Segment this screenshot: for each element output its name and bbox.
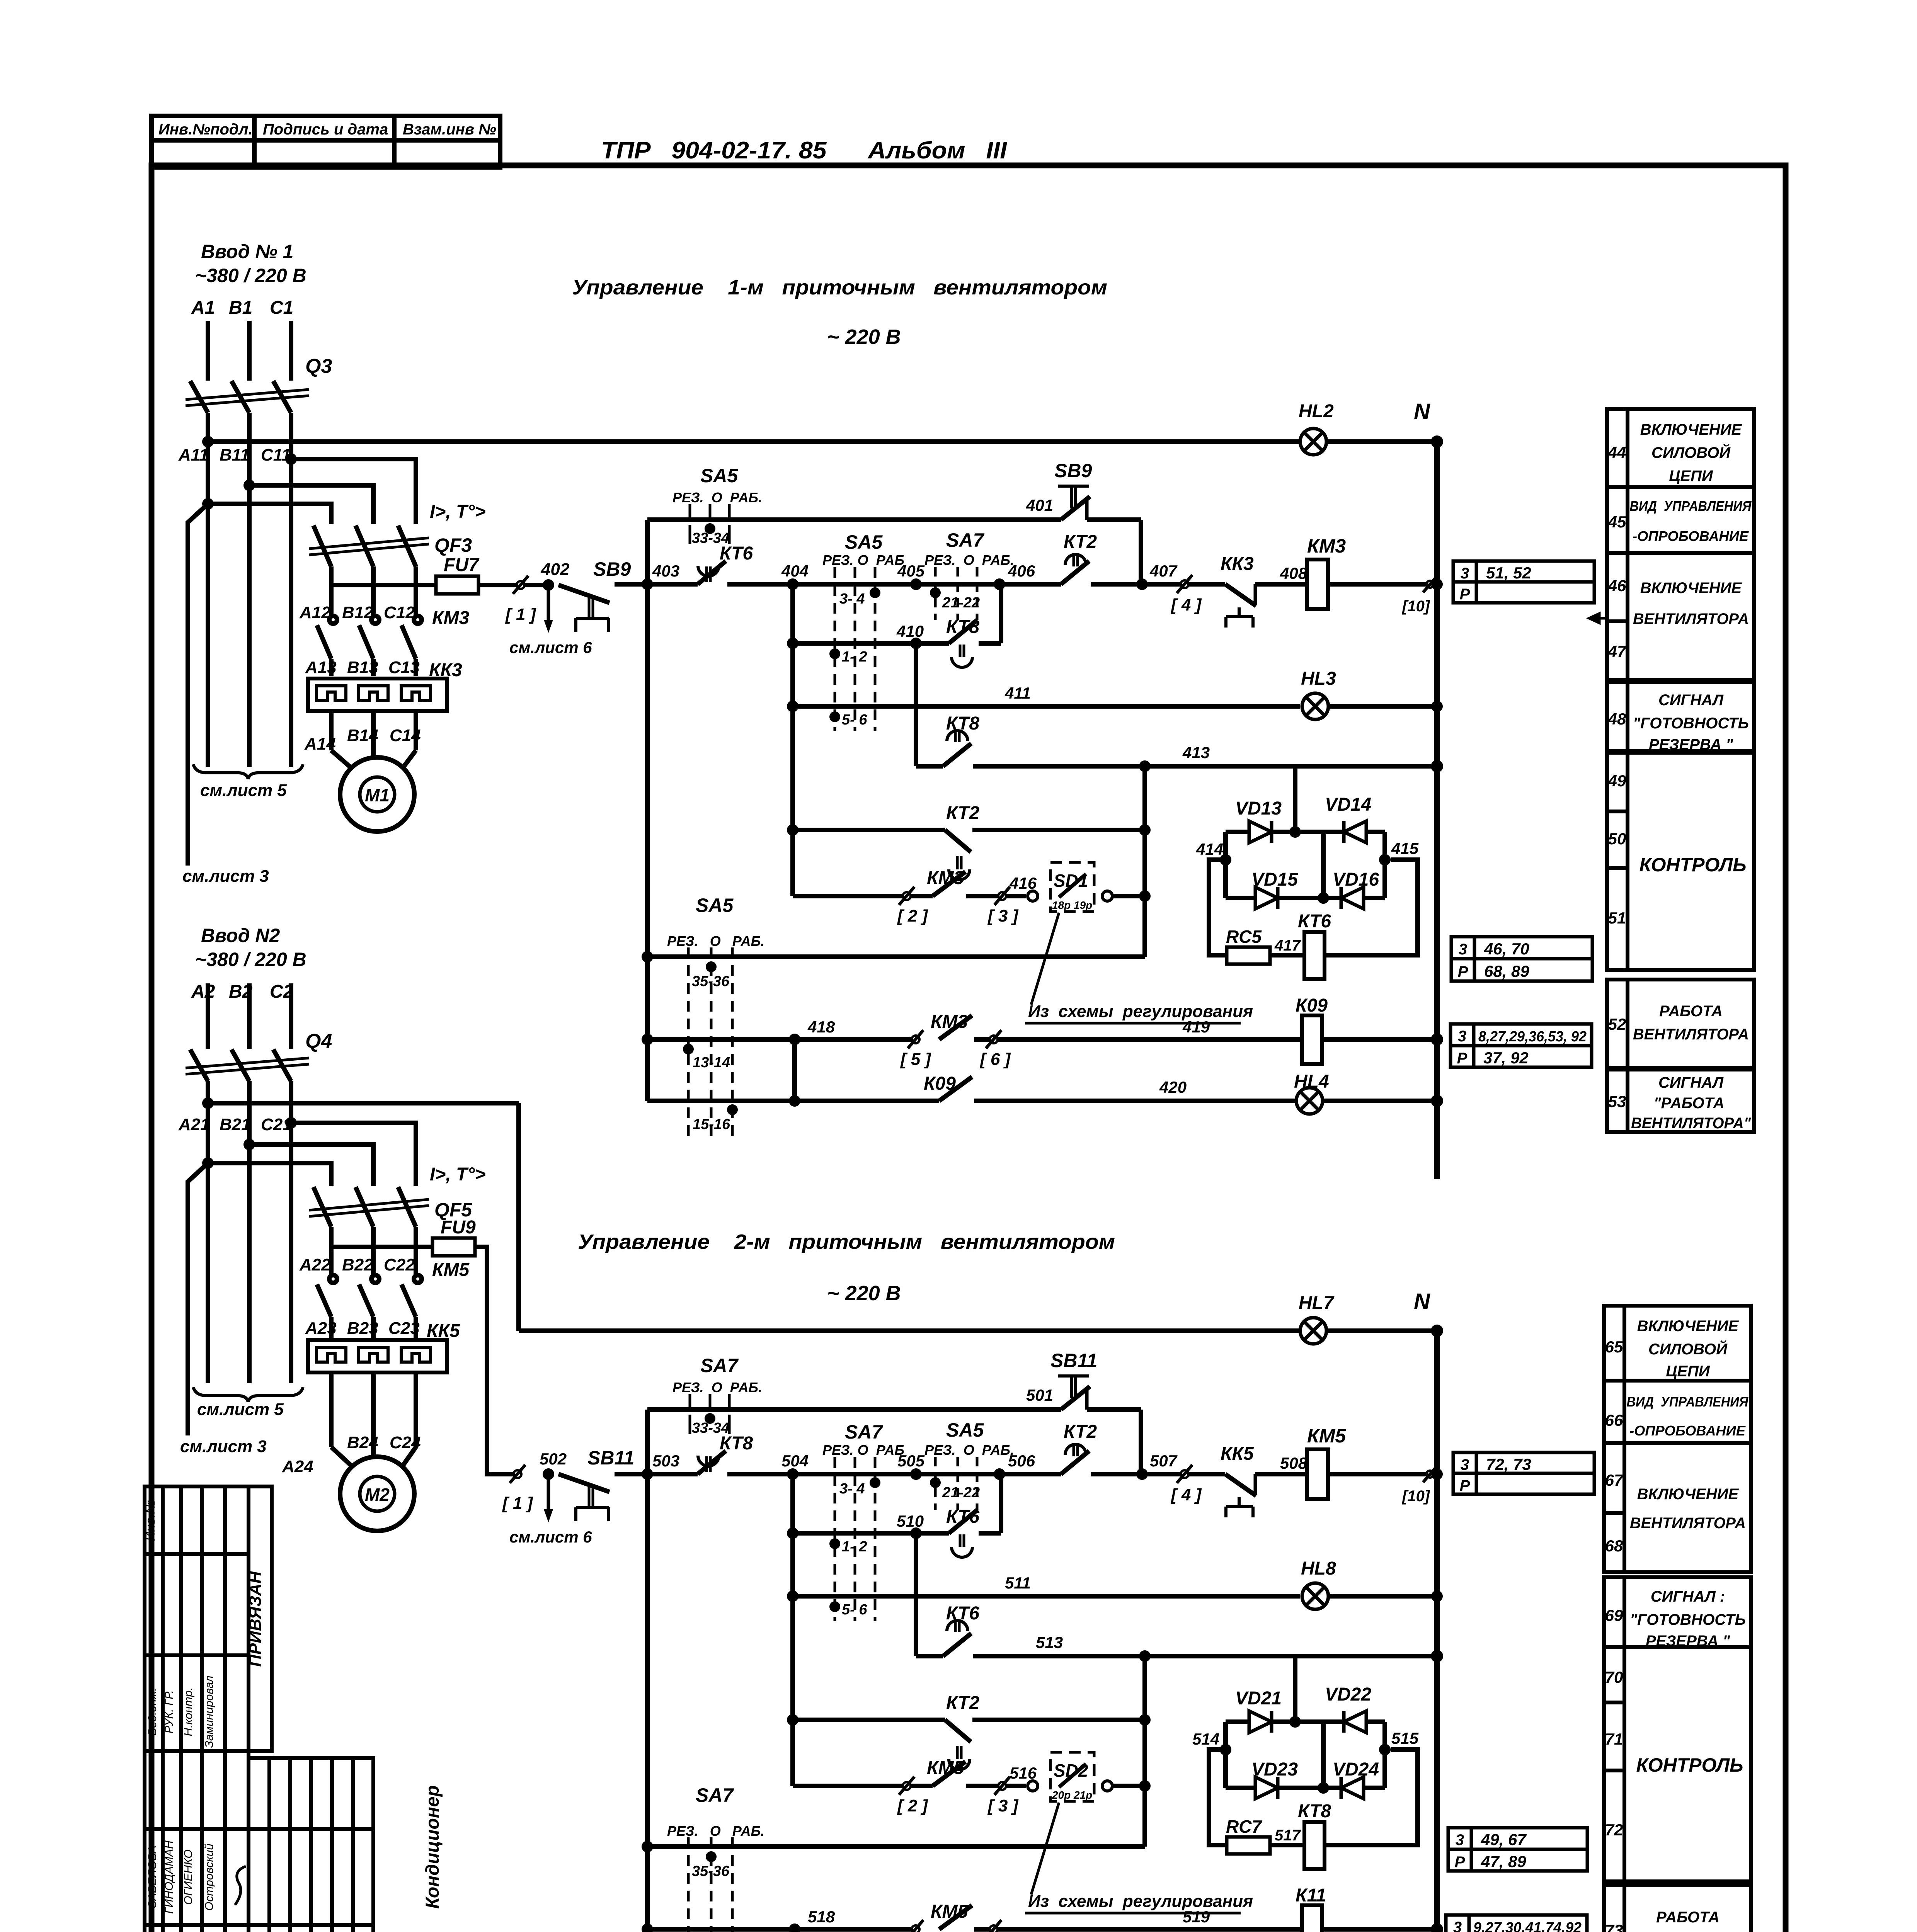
node 405: [910, 578, 922, 590]
svg-text:72, 73: 72, 73: [1486, 1455, 1531, 1473]
svg-text:Q4: Q4: [305, 1030, 332, 1053]
node 410: [910, 638, 922, 649]
svg-text:В12: В12: [342, 603, 373, 622]
svg-text:35-36: 35-36: [692, 973, 730, 990]
svg-text:37, 92: 37, 92: [1483, 1049, 1529, 1067]
svg-text:21-22: 21-22: [942, 595, 980, 611]
svg-text:Из схемы регулирования: Из схемы регулирования: [1028, 1892, 1253, 1911]
wire FU9 corner down: [475, 1247, 518, 1474]
mini ref table 3/72,73: [1453, 1452, 1594, 1494]
terminal circle left: [1028, 891, 1038, 901]
svg-text:502: 502: [540, 1450, 567, 1468]
svg-text:см.лист 5: см.лист 5: [200, 781, 287, 800]
svg-text:3: 3: [1461, 565, 1469, 582]
right sub vertical 2: [1142, 1656, 1147, 1847]
svg-text:Р: Р: [1457, 1050, 1468, 1067]
svg-text:КОНТРОЛЬ: КОНТРОЛЬ: [1639, 854, 1747, 876]
svg-text:51: 51: [1608, 909, 1626, 927]
svg-text:Заминировал: Заминировал: [203, 1675, 216, 1748]
breaker QF3 blades: [313, 526, 331, 566]
svg-text:45: 45: [1608, 513, 1626, 531]
node 506: [994, 1468, 1005, 1480]
svg-text:HL8: HL8: [1301, 1558, 1336, 1579]
svg-text:418: 418: [807, 1018, 835, 1036]
svg-text:21-22: 21-22: [942, 1485, 980, 1501]
svg-text:В11: В11: [220, 446, 249, 464]
svg-text:РАБОТА: РАБОТА: [1659, 1003, 1723, 1020]
svg-text:СИЛОВОЙ: СИЛОВОЙ: [1648, 1340, 1728, 1358]
node 503: [642, 1468, 653, 1480]
svg-text:[ 3 ]: [ 3 ]: [987, 906, 1019, 925]
wire 420: [647, 1099, 939, 1103]
switch Q3 tie bar: [186, 389, 309, 400]
svg-text:HL3: HL3: [1301, 668, 1336, 689]
svg-text:К11: К11: [1296, 1885, 1326, 1906]
wire 414 down to RC5: [1209, 860, 1227, 955]
svg-text:СИГНАЛ: СИГНАЛ: [1658, 1074, 1724, 1091]
wire to sheet 3 lower: [188, 1163, 208, 1435]
remote switch SD1 dashed box: [1050, 862, 1094, 912]
svg-text:КТ2: КТ2: [1064, 1422, 1097, 1442]
bridge 2 side rails: [1223, 1722, 1228, 1788]
node 502: [543, 1468, 554, 1480]
svg-text:Р: Р: [1460, 586, 1470, 603]
svg-text:518: 518: [808, 1908, 835, 1926]
svg-text:SA5: SA5: [696, 895, 734, 916]
diode bridge wires top row: [1226, 830, 1385, 834]
motor M1: [340, 757, 414, 832]
svg-text:8,27,29,36,53, 92: 8,27,29,36,53, 92: [1478, 1029, 1587, 1045]
right function table section 2: [1604, 1306, 1751, 1932]
mini ref table 3/8,27,...: [1451, 1024, 1592, 1067]
svg-text:РЕЗ. О РАБ.: РЕЗ. О РАБ.: [667, 933, 764, 949]
svg-text:18р 19р: 18р 19р: [1052, 899, 1092, 911]
svg-text:406: 406: [1008, 562, 1035, 580]
wire SB9 to node 403: [615, 582, 698, 587]
svg-text:А21: А21: [178, 1115, 210, 1134]
wire 518: [642, 1923, 653, 1932]
svg-text:КМ3: КМ3: [432, 608, 469, 628]
node 414: [1220, 854, 1231, 866]
svg-text:414: 414: [1196, 840, 1223, 858]
svg-text:52: 52: [1608, 1015, 1626, 1033]
svg-text:А11: А11: [178, 446, 208, 464]
left bus vertical section1: [645, 584, 650, 1101]
svg-text:К09: К09: [1296, 995, 1328, 1016]
svg-text:44: 44: [1608, 443, 1626, 461]
svg-text:[ 2 ]: [ 2 ]: [897, 1796, 928, 1815]
svg-text:415: 415: [1391, 839, 1419, 857]
svg-text:9,27,30,41,74,92: 9,27,30,41,74,92: [1473, 1920, 1582, 1932]
svg-text:А23: А23: [305, 1319, 337, 1338]
breaker QF5 pole bottoms: [329, 1227, 334, 1247]
svg-text:С12: С12: [384, 603, 415, 622]
svg-text:71: 71: [1605, 1730, 1623, 1748]
svg-text:VD24: VD24: [1333, 1759, 1379, 1780]
svg-text:49, 67: 49, 67: [1481, 1830, 1527, 1849]
svg-text:А24: А24: [282, 1457, 313, 1476]
wire 401 corner down to node 407: [1139, 520, 1143, 584]
svg-text:Подпись и дата: Подпись и дата: [263, 121, 388, 138]
svg-text:VD22: VD22: [1325, 1684, 1371, 1705]
mini ref table 3/9,27,...: [1446, 1915, 1587, 1932]
tap wire A21 to QF5: [208, 1163, 331, 1186]
cable marker [1] lower: [514, 1470, 521, 1478]
leader line from SD2: [1031, 1803, 1059, 1895]
svg-text:SA7: SA7: [845, 1421, 883, 1443]
svg-text:N: N: [1414, 399, 1430, 424]
svg-text:РЕЗЕРВА ": РЕЗЕРВА ": [1646, 1633, 1730, 1650]
svg-text:46: 46: [1608, 577, 1626, 595]
svg-text:КОНТРОЛЬ: КОНТРОЛЬ: [1636, 1754, 1743, 1776]
wire up to node 506: [999, 1474, 1003, 1533]
svg-text:RC5: RC5: [1226, 927, 1262, 947]
svg-text:1- 2: 1- 2: [842, 649, 867, 665]
svg-text:3: 3: [1453, 1919, 1462, 1932]
wire 401: [647, 517, 1061, 522]
wire SD1 to vertical: [1112, 894, 1145, 898]
svg-text:511: 511: [1005, 1574, 1031, 1592]
svg-text:С24: С24: [390, 1433, 421, 1452]
svg-text:67: 67: [1605, 1471, 1624, 1489]
cable marker [4] lower: [1181, 1470, 1188, 1478]
svg-text:СИЛОВОЙ: СИЛОВОЙ: [1651, 443, 1731, 461]
drop from 513 into diode bridge 2: [1293, 1656, 1297, 1722]
breaker QF5 tie bar: [309, 1199, 429, 1210]
svg-text:~ 220 В: ~ 220 В: [827, 1282, 901, 1305]
diode bridge 2 top row: [1226, 1719, 1385, 1724]
svg-text:КМ5: КМ5: [432, 1260, 470, 1280]
svg-text:РЕЗ. О РАБ.: РЕЗ. О РАБ.: [672, 490, 762, 505]
svg-text:см.лист 6: см.лист 6: [509, 1528, 592, 1546]
svg-text:[10]: [10]: [1401, 598, 1430, 615]
svg-text:КТ6: КТ6: [1298, 911, 1331, 932]
svg-text:СИГНАЛ :: СИГНАЛ :: [1651, 1588, 1725, 1605]
svg-text:73: 73: [1605, 1921, 1623, 1932]
svg-text:КТ8: КТ8: [1298, 1801, 1331, 1821]
svg-text:68: 68: [1605, 1537, 1623, 1555]
svg-text:"ГОТОВНОСТЬ: "ГОТОВНОСТЬ: [1630, 1611, 1746, 1628]
node 415: [1379, 854, 1391, 866]
svg-text:402: 402: [541, 560, 570, 579]
wire phase A2 down: [206, 1081, 210, 1383]
svg-text:SB9: SB9: [1054, 460, 1092, 481]
svg-text:47: 47: [1608, 642, 1627, 660]
svg-text:-ОПРОБОВАНИЕ: -ОПРОБОВАНИЕ: [1633, 528, 1749, 544]
svg-text:В23: В23: [347, 1319, 378, 1338]
N bus section1: [1434, 442, 1440, 1179]
cable marker [5] lower: [912, 1925, 919, 1932]
svg-text:КМ5: КМ5: [1307, 1425, 1346, 1447]
svg-text:SB11: SB11: [587, 1447, 634, 1469]
node 514: [1220, 1744, 1231, 1755]
svg-text:КК5: КК5: [1221, 1444, 1254, 1464]
svg-text:~380 / 220 В: ~380 / 220 В: [195, 949, 306, 970]
wire 506 to KT2: [999, 1472, 1061, 1476]
svg-text:Н.контр.: Н.контр.: [182, 1687, 195, 1736]
svg-text:VD21: VD21: [1235, 1688, 1282, 1709]
wire KT8 coil to 515: [1325, 1750, 1418, 1845]
svg-text:Из схемы регулирования: Из схемы регулирования: [1028, 1002, 1253, 1021]
svg-text:С1: С1: [270, 298, 293, 318]
svg-text:I>, T°>: I>, T°>: [430, 1164, 486, 1185]
node 504: [787, 1468, 798, 1480]
wire SB11 to node 503: [615, 1472, 698, 1476]
right sub vertical: [1142, 766, 1147, 957]
wire KT6 coil to 415: [1325, 860, 1418, 955]
svg-text:[ 4 ]: [ 4 ]: [1170, 1485, 1202, 1504]
svg-text:В21: В21: [220, 1115, 251, 1134]
svg-text:ВКЛЮЧЕНИЕ: ВКЛЮЧЕНИЕ: [1640, 421, 1742, 438]
control feed wire from QF3: [331, 583, 436, 587]
wire phase A1 down: [206, 413, 210, 767]
right function table section 1: [1607, 409, 1754, 1132]
svg-text:С22: С22: [384, 1255, 415, 1274]
svg-text:САВЕЛОВА: САВЕЛОВА: [146, 1845, 159, 1909]
svg-text:ПРИВЯЗАН: ПРИВЯЗАН: [246, 1571, 265, 1667]
svg-text:ВЕНТИЛЯТОРА: ВЕНТИЛЯТОРА: [1630, 1515, 1746, 1532]
wire phase B2 top: [247, 983, 252, 1049]
cable marker [2]: [903, 892, 911, 900]
svg-text:КК3: КК3: [1221, 554, 1254, 574]
svg-text:68, 89: 68, 89: [1484, 962, 1529, 980]
svg-text:70: 70: [1605, 1668, 1623, 1686]
svg-text:ТПР 904-02-17. 85 Альбо: ТПР 904-02-17. 85 Альбом III: [601, 137, 1008, 164]
svg-text:ВИД УПРАВЛЕНИЯ: ВИД УПРАВЛЕНИЯ: [1627, 1394, 1749, 1410]
svg-text:[ 1 ]: [ 1 ]: [505, 605, 536, 624]
svg-text:VD16: VD16: [1333, 869, 1379, 890]
cable marker [4]: [1181, 580, 1188, 588]
svg-text:405: 405: [897, 562, 925, 580]
table 1 left arrow: [1589, 614, 1607, 623]
svg-text:51, 52: 51, 52: [1486, 564, 1531, 582]
node 515: [1379, 1744, 1391, 1755]
table 1 row numbers: [1608, 443, 1627, 1111]
wire 514 down to RC7: [1209, 1750, 1227, 1845]
svg-text:HL2: HL2: [1299, 401, 1334, 422]
svg-text:3- 4: 3- 4: [839, 591, 865, 607]
vertical between 518 and 520: [792, 1929, 797, 1932]
tap wire C11 to QF3: [291, 459, 416, 524]
svg-text:Инв.№подл.: Инв.№подл.: [158, 121, 253, 138]
vertical 510 down to wire 513: [914, 1533, 918, 1656]
svg-text:50: 50: [1608, 830, 1626, 848]
svg-text:517: 517: [1275, 1827, 1301, 1844]
svg-text:411: 411: [1004, 684, 1031, 702]
diode bridge 2 bottom row: [1226, 1786, 1385, 1790]
wire 410 line: [787, 638, 798, 649]
wire phase A2 top: [206, 983, 210, 1049]
svg-text:Ввод N2: Ввод N2: [201, 925, 280, 946]
svg-text:РЕЗ. О РАБ: РЕЗ. О РАБ: [822, 1442, 904, 1458]
cable marker [6] lower: [990, 1925, 998, 1932]
svg-text:СИГНАЛ: СИГНАЛ: [1658, 692, 1724, 709]
wire 406 to KT2: [999, 582, 1061, 587]
node 510: [910, 1527, 922, 1539]
node 505: [910, 1468, 922, 1480]
wire SD2 to vertical: [1112, 1784, 1145, 1788]
brace see sheet 5 lower: [193, 1387, 303, 1402]
svg-text:410: 410: [896, 622, 924, 640]
svg-text:см.лист 3: см.лист 3: [180, 1437, 267, 1456]
wire 417: [1270, 953, 1304, 957]
cable marker [2] lower: [903, 1782, 911, 1790]
signature squiggles: [232, 1866, 246, 1932]
svg-text:417: 417: [1274, 937, 1301, 954]
svg-text:ВЕНТИЛЯТОРА: ВЕНТИЛЯТОРА: [1633, 611, 1749, 628]
mini ref table 3/49,67: [1448, 1828, 1587, 1871]
svg-text:508: 508: [1280, 1454, 1308, 1472]
svg-text:РАБОТА: РАБОТА: [1656, 1909, 1720, 1926]
svg-text:ЦЕПИ: ЦЕПИ: [1666, 1363, 1710, 1380]
svg-text:N: N: [1414, 1289, 1430, 1314]
svg-text:см.лист 3: см.лист 3: [182, 867, 269, 886]
svg-text:ВКЛЮЧЕНИЕ: ВКЛЮЧЕНИЕ: [1640, 580, 1742, 597]
svg-text:72: 72: [1605, 1821, 1623, 1839]
wire KM3-SD1 line: [793, 894, 933, 898]
svg-text:Островский: Островский: [203, 1844, 216, 1911]
svg-text:РЕЗЕРВА ": РЕЗЕРВА ": [1649, 736, 1733, 753]
svg-text:ВИД УПРАВЛЕНИЯ: ВИД УПРАВЛЕНИЯ: [1630, 498, 1752, 514]
bridge 2 mid tie: [1321, 1722, 1326, 1788]
svg-text:3: 3: [1456, 1832, 1464, 1849]
svg-text:5- 6: 5- 6: [842, 712, 867, 728]
breaker QF3 tie bar: [309, 538, 429, 549]
bridge mid tie: [1321, 832, 1326, 898]
svg-text:Q3: Q3: [305, 355, 332, 378]
svg-text:3- 4: 3- 4: [839, 1481, 865, 1497]
svg-text:48: 48: [1608, 710, 1626, 728]
svg-text:513: 513: [1036, 1633, 1063, 1651]
terminal circle right 2: [1102, 1781, 1112, 1791]
svg-text:см.лист 6: см.лист 6: [509, 638, 592, 656]
cable marker [3] lower: [998, 1782, 1006, 1790]
node 507: [1136, 1468, 1148, 1480]
svg-text:В24: В24: [347, 1433, 378, 1452]
svg-text:SA7: SA7: [946, 529, 984, 551]
svg-text:А1: А1: [191, 298, 215, 318]
svg-text:КТ2: КТ2: [1064, 532, 1097, 552]
wire coil KM3 to N: [1328, 582, 1437, 587]
svg-text:РЕЗ. О РАБ.: РЕЗ. О РАБ.: [672, 1379, 762, 1395]
svg-text:РУК. ГР.: РУК. ГР.: [163, 1690, 175, 1733]
wire KM5-SD2 line: [793, 1784, 933, 1788]
node 403: [642, 578, 653, 590]
motor M2: [340, 1457, 414, 1531]
svg-text:~380 / 220 В: ~380 / 220 В: [195, 265, 306, 286]
wire FU7 to 402: [478, 583, 548, 587]
diode bridge wires bottom row: [1226, 896, 1385, 900]
svg-text:510: 510: [897, 1512, 924, 1530]
vertical from node 404 down: [790, 584, 795, 896]
svg-text:Ввод № 1: Ввод № 1: [201, 241, 293, 262]
title block: part A grid (Привязан / Инв.№ columns): [145, 1486, 272, 1751]
remote switch SD2 dashed box: [1050, 1752, 1094, 1801]
svg-text:15-16: 15-16: [693, 1116, 730, 1133]
top rail section2: [519, 1328, 1300, 1333]
svg-text:Инв.№: Инв.№: [143, 1500, 158, 1541]
svg-text:[ 2 ]: [ 2 ]: [897, 906, 928, 925]
svg-text:FU7: FU7: [444, 555, 480, 575]
svg-text:ВЕНТИЛЯТОРА: ВЕНТИЛЯТОРА: [1633, 1026, 1749, 1043]
svg-text:419: 419: [1182, 1018, 1210, 1036]
wire 501: [647, 1407, 1061, 1412]
selector SA5 contact 1-2: [829, 648, 840, 659]
wire 505 to 506: [916, 1472, 999, 1476]
svg-text:519: 519: [1183, 1908, 1210, 1926]
selector SA5 contact 5-6: [829, 711, 840, 722]
svg-text:ВКЛЮЧЕНИЕ: ВКЛЮЧЕНИЕ: [1637, 1318, 1739, 1335]
svg-text:Управление 2-м приточным: Управление 2-м приточным вентилятором: [578, 1230, 1115, 1253]
wire up to node 406: [999, 584, 1003, 643]
svg-text:А2: А2: [191, 981, 215, 1002]
svg-text:3: 3: [1461, 1456, 1469, 1473]
svg-text:ГИНОДАМАН: ГИНОДАМАН: [163, 1840, 175, 1914]
svg-text:А13: А13: [305, 658, 337, 677]
control feed bus A21: [208, 1101, 519, 1105]
motor M2 leads: [331, 1447, 352, 1467]
bridge side rails: [1223, 832, 1228, 898]
wire 511: [787, 1590, 798, 1602]
node 407: [1136, 578, 1148, 590]
svg-text:3: 3: [1459, 941, 1467, 958]
svg-text:В22: В22: [342, 1255, 373, 1274]
svg-text:РЕЗ. О РАБ.: РЕЗ. О РАБ.: [924, 552, 1014, 568]
svg-text:501: 501: [1026, 1386, 1053, 1404]
svg-text:ОГИЕНКО: ОГИЕНКО: [182, 1849, 195, 1905]
wire phase C2 down: [289, 1081, 293, 1383]
svg-text:Взам.инв №: Взам.инв №: [403, 121, 496, 138]
svg-text:SA5: SA5: [700, 465, 738, 486]
border frame: [152, 165, 1786, 1932]
table 2 texts: [1627, 1318, 1749, 1932]
svg-text:47, 89: 47, 89: [1481, 1852, 1526, 1871]
header strip table top-left: [152, 116, 500, 167]
arrow to sheet 6: [547, 585, 550, 621]
switch Q3 blades: [190, 381, 208, 413]
svg-text:515: 515: [1391, 1729, 1419, 1747]
selector SA7 contact 5-6: [829, 1601, 840, 1612]
breaker QF5 blades: [313, 1187, 331, 1227]
svg-text:[ 4 ]: [ 4 ]: [1170, 595, 1202, 614]
cable marker [5]: [912, 1036, 919, 1043]
svg-text:Р: Р: [1460, 1477, 1470, 1494]
wire phase A1 top: [206, 321, 210, 381]
wire 418: [642, 1034, 653, 1045]
svg-text:Р: Р: [1458, 963, 1468, 980]
svg-text:506: 506: [1008, 1452, 1035, 1470]
svg-text:5- 6: 5- 6: [842, 1602, 867, 1618]
wire 510 line: [787, 1527, 798, 1539]
svg-text:[ 1 ]: [ 1 ]: [502, 1494, 533, 1513]
svg-text:1- 2: 1- 2: [842, 1539, 867, 1555]
svg-text:РЕЗ. О РАБ: РЕЗ. О РАБ: [822, 552, 904, 568]
svg-text:66: 66: [1605, 1411, 1623, 1429]
svg-text:SA7: SA7: [700, 1355, 739, 1376]
svg-text:49: 49: [1608, 772, 1626, 790]
cable marker [1]: [517, 581, 524, 589]
leader line from SD1: [1031, 913, 1059, 1005]
svg-text:М1: М1: [365, 785, 390, 805]
wire 413: [916, 764, 943, 769]
svg-text:SB11: SB11: [1050, 1350, 1097, 1371]
svg-text:514: 514: [1192, 1730, 1219, 1748]
svg-text:VD13: VD13: [1235, 798, 1282, 819]
svg-text:ЦЕПИ: ЦЕПИ: [1669, 468, 1713, 485]
wire phase C2 top: [289, 983, 293, 1049]
terminal circle left 2: [1028, 1781, 1038, 1791]
wire phase C1 down: [289, 413, 293, 767]
